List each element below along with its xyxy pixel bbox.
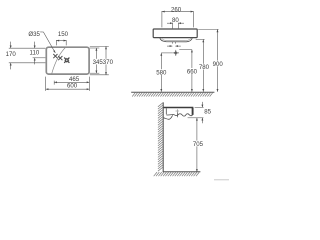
drain mark [64,58,69,63]
svg-text:260: 260 [171,6,182,13]
label 900 [212,61,223,68]
slab outline (front view) [153,29,197,38]
wall hatching [158,103,163,172]
svg-text:150: 150 [58,31,69,38]
dim 600 (overall width) [46,77,90,91]
label 110 [30,50,40,57]
floor hatching under front view [132,92,213,96]
label 660 [186,68,197,75]
tap hole mark 2 [58,56,62,60]
label 580 [156,69,167,76]
svg-text:85: 85 [204,109,211,116]
svg-text:345370: 345370 [93,59,114,66]
svg-text:600: 600 [67,83,78,90]
labels 345 370 [92,59,113,66]
svg-text:Ø35: Ø35 [28,31,40,38]
label 780 [199,64,210,71]
extension underside right [188,117,204,119]
dim 900 (rim height) [217,29,219,91]
extension rim top right [195,106,204,108]
label 465 [69,76,80,83]
svg-text:110: 110 [30,50,40,57]
svg-text:170: 170 [6,51,17,58]
extension line drain level [9,62,46,64]
dim 345 (inner depth) [95,48,97,73]
side profile rim [164,107,194,109]
side profile bracket vertical [165,108,167,114]
dim 80 (overflow) [167,23,184,29]
label 150 [58,31,69,38]
side profile bracket bottom [164,115,173,119]
wall line [162,102,164,172]
label 600 [67,83,78,90]
dim 780 [202,39,204,91]
label 170 [6,51,17,58]
svg-text:900: 900 [213,61,224,68]
extension to 780 [196,38,205,40]
floor line under side view [163,171,201,173]
dim 150 (tap to centre) [56,40,66,45]
dim 110 (back edge to tap) [34,42,36,65]
siphon cross target [173,50,179,56]
extension line back edge left [9,47,46,49]
dim 170 (back edge to drain) [10,42,12,70]
side profile centreline cross [176,109,180,113]
drain stub ticks [172,42,175,44]
dim 580 (siphon height) [160,53,162,92]
extension line tap level [33,57,46,59]
side profile right end [192,108,194,115]
extension to 580 [161,52,172,54]
dim 705 (underside height) [196,118,198,172]
label 80 [172,17,179,24]
side profile drain tick [176,112,178,117]
extension to 660 [179,49,192,51]
svg-text:580: 580 [156,70,167,77]
dim 660 [191,50,193,92]
leader line Ø35 [40,32,55,53]
svg-text:780: 780 [199,64,210,71]
floor hatching under side view [154,172,200,176]
label Ø35 [28,31,40,38]
dim 260 (fixing) [162,11,193,27]
plan arc (tap zone curve) [52,47,66,74]
svg-text:705: 705 [193,141,204,148]
side profile underside wave [166,113,193,116]
label 705 [193,141,204,148]
drain width arrows [167,45,181,47]
svg-text:80: 80 [172,17,179,24]
dim 465 (tap to right edge) [54,81,89,85]
dim 370 (outer depth) [105,46,107,74]
svg-text:660: 660 [187,68,198,75]
tap hole mark 1 [53,54,57,58]
floor line under front view [131,91,214,93]
label 85 [204,109,211,116]
basin plan outline [46,47,89,74]
faint corner mark [214,179,229,180]
bowl outline (front view) [160,38,193,42]
label 260 [171,6,182,13]
extension to 900 [198,28,218,30]
dim 85 (rim thickness) [201,102,203,123]
extension lines right of basin [90,46,109,74]
